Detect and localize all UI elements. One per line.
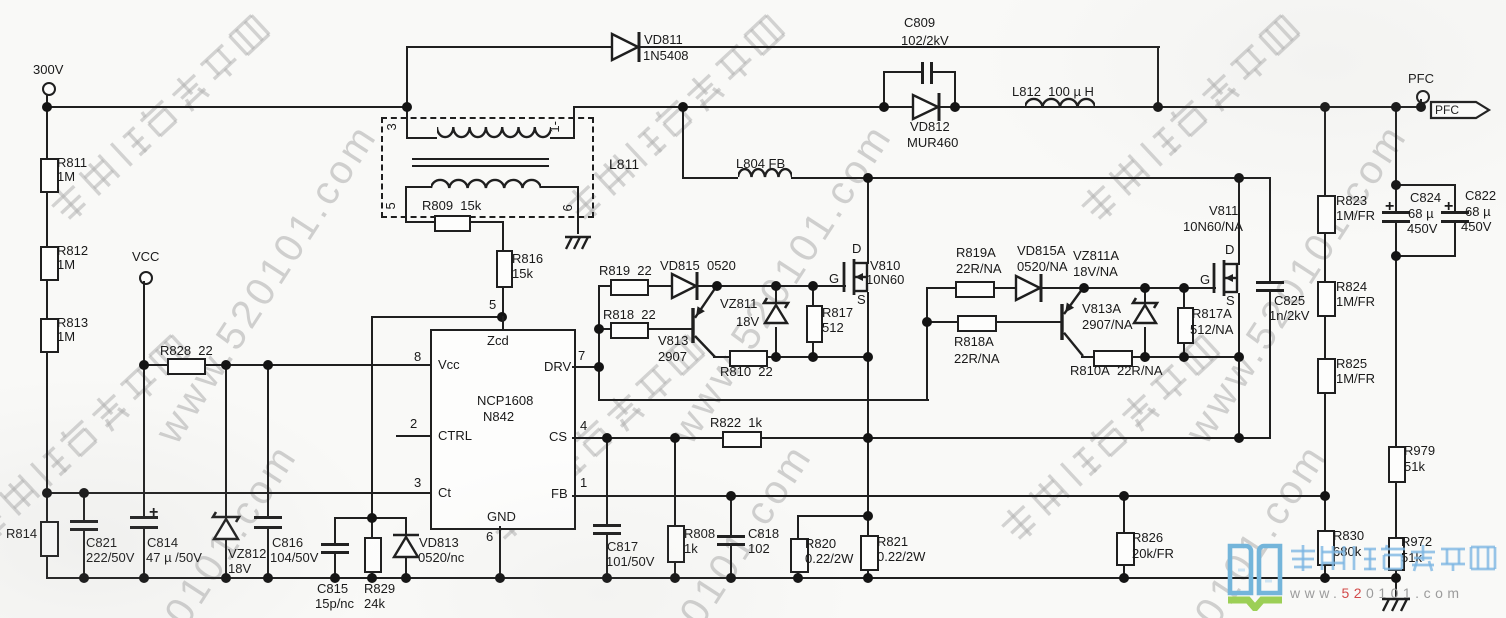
label R823: [1336, 194, 1367, 208]
wire gate row A: [926, 287, 1216, 289]
inductor L804: [738, 166, 792, 181]
resistor R824: [1317, 281, 1336, 317]
label C818: [748, 527, 779, 541]
label VZ812: [228, 547, 266, 561]
label 10N60: [866, 273, 904, 287]
wire R826 vertical: [1123, 495, 1125, 579]
label VZ811: [720, 297, 757, 311]
node R810A row/VZ811A: [1140, 352, 1150, 362]
wire C822 upper lead: [1454, 184, 1456, 212]
label R824: [1336, 280, 1367, 294]
label 1N5408: [643, 49, 689, 63]
label C814v: [146, 551, 202, 565]
transformer L811 dashed box: [381, 117, 594, 218]
node R810A row/V811 source: [1234, 352, 1244, 362]
wire output divider chain x1325: [1324, 106, 1326, 579]
wire secondary right horiz: [540, 186, 579, 188]
wire C821 upper lead: [83, 492, 85, 521]
node sense/R820 link: [863, 511, 873, 521]
node gnd/R821: [863, 573, 873, 583]
wire R817 vertical: [812, 285, 814, 356]
label VZ812v: [228, 562, 251, 576]
label Ct pin: [438, 486, 451, 500]
label C809: [904, 16, 935, 30]
node gnd/C818: [726, 573, 736, 583]
wire CS row: [572, 437, 1240, 439]
label C822v1: [1465, 205, 1491, 219]
wire VD813 lead upper: [405, 517, 407, 537]
node gnd/C821: [79, 573, 89, 583]
node rail/transformer pin3: [402, 102, 412, 112]
wire driver cell1 bottom loop: [598, 399, 929, 401]
node Vcc/VZ812: [221, 360, 231, 370]
inductor L811 secondary: [431, 177, 541, 192]
label R813: [57, 316, 88, 330]
resistor R829: [364, 537, 382, 573]
node gnd/IC: [495, 573, 505, 583]
node rail/bulk caps: [1391, 102, 1401, 112]
node gnd/C814: [139, 573, 149, 583]
label pin5 num: [489, 298, 496, 312]
resistor R823: [1317, 195, 1336, 234]
label R817A: [1192, 307, 1232, 321]
label C817v: [606, 555, 654, 569]
node gate1/R817: [808, 281, 818, 291]
wire primary right riser: [573, 106, 575, 139]
transistor V813A (PNP): [1054, 280, 1091, 364]
label CTRL pin: [438, 429, 472, 443]
wire C814 lower lead: [143, 527, 145, 579]
wire VZ811 lead lower: [775, 327, 777, 356]
wire VZ811A lead lower: [1144, 327, 1146, 356]
capacitor C821: [70, 520, 98, 523]
label V811 D: [1225, 243, 1234, 257]
logo book icon: [1226, 541, 1284, 611]
resistor R809: [434, 215, 471, 232]
label R979: [1404, 444, 1435, 458]
resistor R813: [40, 318, 59, 353]
diode VD813: [389, 527, 423, 565]
node gnd/R808: [670, 573, 680, 583]
label R814: [6, 527, 37, 541]
label R812: [57, 244, 88, 258]
label V810 D: [852, 242, 861, 256]
label pin3: [385, 123, 399, 130]
resistor R821: [860, 535, 879, 571]
label 102/2kV: [901, 34, 949, 48]
wire VZ811A lead upper: [1144, 287, 1146, 303]
capacitor C818: [717, 535, 745, 538]
node FB/divider: [1320, 491, 1330, 501]
node Vcc/C816: [263, 360, 273, 370]
node CS/source sense: [863, 433, 873, 443]
node timing node: [367, 513, 377, 523]
label L804 FB: [736, 157, 785, 171]
label R821v: [877, 550, 925, 564]
label R810 22: [720, 365, 773, 379]
label R811v: [57, 170, 75, 184]
resistor R818: [610, 322, 649, 339]
label R818Av: [954, 352, 1000, 366]
wire C816 vertical upper: [267, 364, 269, 517]
resistor R820: [790, 538, 809, 573]
resistor R808: [667, 525, 685, 563]
node gnd/VD813: [401, 573, 411, 583]
label R817: [822, 306, 853, 320]
label R830v: [1333, 545, 1361, 559]
resistor R810: [729, 350, 768, 367]
resistor R814: [40, 521, 59, 557]
wire L804 row left: [682, 177, 738, 179]
wire C825 bottom link: [1238, 437, 1271, 439]
label V810 G: [829, 272, 839, 286]
label R818 22: [603, 308, 656, 322]
capacitor C816: [254, 516, 282, 519]
wire V810 drain vertical: [867, 177, 869, 264]
label VD815A: [1017, 244, 1065, 258]
resistor R811: [40, 158, 59, 193]
node R810 row/R817: [808, 352, 818, 362]
label VD811: [644, 33, 683, 47]
node rail/output divider: [1320, 102, 1330, 112]
capacitor C822: [1441, 211, 1469, 214]
label NCP1608: [477, 394, 533, 408]
wire C818 lower lead: [730, 543, 732, 579]
terminal VCC: [139, 271, 153, 285]
label R817Av: [1190, 323, 1233, 337]
label MUR460: [907, 136, 958, 150]
label R829v: [364, 597, 385, 611]
label GND pin: [487, 510, 516, 524]
label C822v2: [1461, 220, 1491, 234]
wire C825 upper lead: [1269, 177, 1271, 282]
resistor R830: [1317, 530, 1335, 566]
node x599/DRV: [594, 362, 604, 372]
node rail/C809 left: [879, 102, 889, 112]
label pin5: [384, 202, 398, 209]
label C821v: [86, 551, 134, 565]
label pin6: [561, 204, 575, 211]
wire R810A row: [1081, 356, 1240, 358]
label R816: [512, 252, 543, 266]
C814 plus sign: [149, 505, 158, 522]
node gnd/R826: [1119, 573, 1129, 583]
capacitor C824: [1382, 211, 1410, 214]
node gnd/R820: [793, 573, 803, 583]
wire R820 vertical: [797, 515, 799, 579]
label C824v2: [1407, 222, 1437, 236]
L811 core lines: [412, 158, 549, 160]
label R829: [364, 582, 395, 596]
label C816v: [270, 551, 318, 565]
wire CTRL stub: [396, 435, 430, 437]
label 300V: [33, 63, 63, 77]
terminal 300V: [42, 82, 56, 96]
capacitor C814: [130, 516, 158, 519]
label C825v: [1269, 309, 1309, 323]
wire timing node bar: [334, 517, 407, 519]
wire C809 right stub horiz: [932, 71, 956, 73]
label VZ811Av: [1073, 265, 1118, 279]
label C825: [1274, 294, 1305, 308]
label R812v: [57, 258, 75, 272]
wire C817 upper lead: [606, 437, 608, 525]
label VCC: [132, 250, 159, 264]
node gnd/R830: [1320, 573, 1330, 583]
node rail/L804: [678, 102, 688, 112]
wire PFC terminal lead: [1420, 99, 1422, 107]
wire C815 lower lead: [334, 552, 336, 579]
resistor R825: [1317, 358, 1336, 394]
wire Zcd pin lead: [502, 316, 504, 330]
label R826: [1132, 531, 1163, 545]
label R823v: [1336, 209, 1375, 223]
label VD812: [910, 120, 950, 134]
label 512: [822, 321, 844, 335]
C824 plus sign: [1385, 199, 1394, 216]
wire V811 source vertical: [1238, 293, 1240, 439]
transistor V811 (MOSFET): [1210, 256, 1250, 300]
label C822: [1465, 189, 1496, 203]
wire C809 left stub vert: [883, 71, 885, 106]
label FB pin: [551, 487, 568, 501]
label V810 S: [857, 293, 866, 307]
ground main ground: [1378, 596, 1416, 614]
label R830: [1333, 529, 1364, 543]
label R821: [877, 535, 908, 549]
wire VZ811 lead upper: [775, 285, 777, 303]
resistor R818A: [957, 315, 997, 332]
label V811 S: [1226, 294, 1235, 308]
label C824: [1410, 191, 1441, 205]
label V810: [870, 259, 900, 273]
diode VD811: [610, 31, 646, 63]
label R979v: [1404, 460, 1425, 474]
label Vcc pin: [438, 358, 460, 372]
label L812 100uH: [1012, 85, 1094, 99]
label CS pin: [549, 430, 567, 444]
node gnd/R829: [367, 573, 377, 583]
node rail/PFC terminal: [1416, 102, 1426, 112]
label pin4 num: [580, 419, 587, 433]
label C817: [607, 540, 638, 554]
wire cap pair top row: [1395, 184, 1456, 186]
resistor R816: [496, 250, 513, 288]
wire primary left lead: [406, 106, 408, 139]
wire 300V rail left segment: [46, 106, 409, 108]
node rail/bypass return: [1153, 102, 1163, 112]
inductor L812: [1025, 96, 1095, 111]
label R810A 22R/NA: [1070, 364, 1163, 378]
logo url www.520101.com: [1290, 586, 1464, 601]
wire R809-R816 vertical: [502, 221, 504, 330]
label V813A: [1082, 302, 1121, 316]
label R809 15k: [422, 199, 481, 213]
node bulk caps top: [1391, 180, 1401, 190]
wire R810 row: [713, 356, 869, 358]
resistor R979: [1388, 446, 1406, 483]
wire GND pin lead: [499, 526, 501, 579]
node gnd/C815: [330, 573, 340, 583]
wire C809 right stub vert: [954, 71, 956, 106]
label 18V: [736, 315, 759, 329]
svg-text:PFC: PFC: [1435, 103, 1459, 117]
wire secondary left lead: [405, 188, 407, 223]
wire Ct row: [46, 492, 431, 494]
label pin2 num: [410, 417, 417, 431]
label VD815Av: [1017, 260, 1068, 274]
wire driver feed vertical x927: [926, 287, 928, 401]
wire V810 source vertical: [867, 292, 869, 578]
wire bypass drop at x1158: [1157, 46, 1159, 106]
resistor R822: [722, 431, 762, 448]
wire ground rail: [46, 577, 1398, 579]
label V813: [658, 334, 688, 348]
label C814: [147, 536, 178, 550]
label pin8 num: [414, 350, 421, 364]
PFC output flag: [1429, 99, 1493, 121]
label R824v: [1336, 295, 1375, 309]
resistor R810A: [1093, 350, 1133, 367]
label V811 G: [1200, 273, 1210, 287]
label pin1 num: [580, 476, 587, 490]
label 10N60/NA: [1183, 220, 1243, 234]
node 300V rail/divider: [42, 102, 52, 112]
diode VZ812: [209, 509, 243, 547]
wire C817 lower lead: [606, 532, 608, 579]
wire C809 left stub horiz: [883, 71, 922, 73]
node Ct/C821: [79, 488, 89, 498]
node gateA/R817A: [1179, 283, 1189, 293]
resistor R826: [1116, 532, 1135, 566]
label R811: [57, 156, 87, 170]
label R819Av: [956, 262, 1002, 276]
node Ct/left chain: [42, 488, 52, 498]
wire primary left horiz: [406, 137, 437, 139]
label R972v: [1401, 551, 1422, 565]
label pin7 num: [578, 349, 585, 363]
label R825v: [1336, 372, 1375, 386]
label PFC terminal label: [1408, 72, 1434, 86]
node gnd/C816: [263, 573, 273, 583]
wire main ground stub: [1395, 577, 1397, 597]
wire R829 leads: [371, 517, 373, 579]
label R820v: [805, 552, 853, 566]
node L804/V811 drain: [1234, 173, 1244, 183]
wire C816 lower lead: [267, 527, 269, 579]
wire left divider chain vertical: [46, 92, 48, 579]
label VD813: [419, 536, 459, 550]
wire secondary left horiz: [405, 186, 431, 188]
node R810A row/R817A: [1179, 352, 1189, 362]
node R810 row/VZ811: [771, 352, 781, 362]
node R810 row/V810 source: [863, 352, 873, 362]
label C821: [86, 536, 117, 550]
label C818v: [748, 542, 770, 556]
ground transformer pin6 ground: [561, 234, 597, 252]
label R819 22: [599, 264, 652, 278]
wire V811 drain vertical: [1238, 177, 1240, 265]
node gate1/VZ811: [771, 281, 781, 291]
wire DRV pin wire: [572, 366, 600, 368]
wire gate row 1: [598, 285, 846, 287]
wire C825 lower lead: [1269, 289, 1271, 439]
wire R818A row: [926, 321, 1063, 323]
label pin1: [548, 121, 562, 133]
label R813v: [57, 330, 75, 344]
resistor R819A: [955, 281, 995, 298]
wire Zcd-node vertical x372: [371, 316, 373, 519]
label pin3 num: [414, 476, 421, 490]
resistor R817A: [1177, 307, 1194, 344]
diode VD815A: [1014, 273, 1048, 303]
label 15k: [512, 267, 533, 281]
label R808v: [684, 542, 698, 556]
node gateA/emitter: [1079, 283, 1089, 293]
label R819A: [956, 246, 996, 260]
label V813Av: [1082, 318, 1133, 332]
node gnd/VZ812: [221, 573, 231, 583]
node x927/R818A row: [922, 317, 932, 327]
label DRV pin: [544, 360, 571, 374]
terminal PFC: [1416, 90, 1430, 104]
label 2907: [658, 350, 687, 364]
resistor R972: [1388, 537, 1405, 571]
wire Vcc row: [143, 364, 431, 366]
wire C822 lower lead: [1454, 221, 1456, 255]
label C816: [272, 536, 303, 550]
node CS/C817: [602, 433, 612, 443]
label C815v: [315, 597, 354, 611]
wire cap pair bottom row: [1395, 255, 1456, 257]
wire primary right horiz: [550, 137, 575, 139]
label C824v1: [1408, 207, 1434, 221]
wire rail to L804 drop: [682, 106, 684, 179]
node Vcc/VCC terminal: [139, 360, 149, 370]
wire bypass riser at x407: [406, 46, 408, 106]
wire L804 row right: [791, 177, 1271, 179]
capacitor C817: [593, 524, 621, 527]
wire 300V rail right segment: [573, 106, 1423, 108]
label Zcd: [487, 334, 509, 348]
node gateA/VZ811A: [1140, 283, 1150, 293]
label R818A: [954, 335, 994, 349]
label pin6 num: [486, 530, 493, 544]
wire R818 row: [598, 328, 694, 330]
transistor V813 (PNP): [685, 279, 724, 365]
logo text 家电维修资料网 (stylized): [1288, 543, 1504, 575]
label R808: [684, 527, 715, 541]
wire bypass top wire: [406, 46, 1160, 48]
inductor L811 primary: [437, 125, 551, 141]
wire FB row: [572, 495, 1326, 497]
label R972: [1401, 535, 1432, 549]
wire C818 upper lead: [730, 495, 732, 536]
diode VZ811A: [1129, 295, 1161, 331]
node L804/V810 drain: [863, 173, 873, 183]
label R825: [1336, 357, 1367, 371]
capacitor C809: [921, 62, 924, 84]
capacitor C815: [321, 543, 349, 546]
wire driver feed vertical x599: [598, 285, 600, 401]
wire secondary pin6 lead: [577, 186, 579, 234]
wire VD813 lead lower: [405, 558, 407, 579]
op-amp U1 IC NCP1608 box: [430, 329, 576, 530]
wire bulk cap chain upper: [1395, 106, 1397, 212]
wire VCC vertical to C814: [143, 281, 145, 517]
label VD815 0520: [660, 259, 736, 273]
label R826v: [1132, 547, 1174, 561]
